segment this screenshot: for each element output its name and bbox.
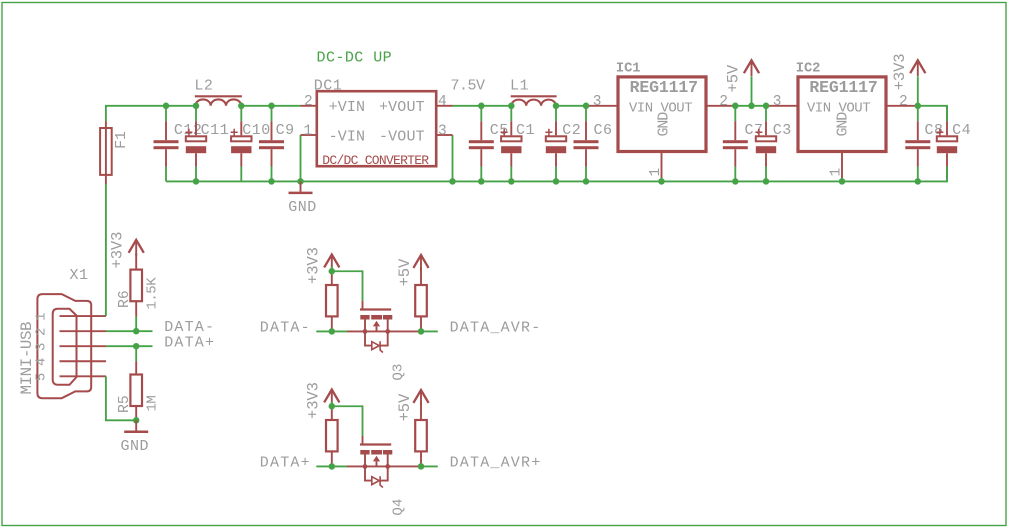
pin 2 stub DC1 <box>301 105 316 107</box>
resistor pull-up 3V3 at Q4 <box>326 420 338 451</box>
svg-text:REG1117: REG1117 <box>809 78 877 97</box>
pin 2 stub IC1 <box>708 105 733 107</box>
resistor pull-up 5V pins at Q4 <box>420 403 422 467</box>
junction bottom rail at C1 <box>508 178 515 185</box>
svg-text:DATA-: DATA- <box>260 320 311 337</box>
junction bottom rail at C2 <box>553 178 560 185</box>
resistor pull-up 5V at Q3 <box>415 285 427 316</box>
junction +3V3 at Q3 <box>329 268 336 275</box>
svg-text:1: 1 <box>828 168 844 177</box>
svg-text:C4: C4 <box>952 122 971 139</box>
svg-text:X1: X1 <box>70 267 89 284</box>
resistor pull-up 5V at Q4 <box>415 420 427 451</box>
junction top rail at C6 <box>583 103 590 110</box>
svg-text:1M: 1M <box>145 396 161 412</box>
junction top rail at C12 <box>163 103 170 110</box>
svg-text:DATA_AVR-: DATA_AVR- <box>450 320 542 337</box>
svg-text:L2: L2 <box>194 78 213 95</box>
junction top rail at L2/C11 <box>193 103 200 110</box>
capacitor C2 (polarized) <box>545 106 566 182</box>
wire DATA+ from X1 pin 3 <box>106 345 153 347</box>
wire ground rail <box>166 167 947 182</box>
capacitor C1 (polarized) <box>501 106 522 182</box>
capacitor C7 <box>723 106 748 182</box>
wire F1 to X1 pin 1 <box>105 184 107 316</box>
resistor R5 pins <box>135 346 137 420</box>
wire L1 to IC1 VIN <box>556 105 588 107</box>
wire +5V supply stub <box>751 76 753 106</box>
svg-text:+5V: +5V <box>725 64 743 92</box>
junction bottom rail at IC1-1 <box>658 178 665 185</box>
junction top rail at C10 <box>238 103 245 110</box>
junction DATA- at R6 <box>133 328 140 335</box>
svg-text:GND: GND <box>655 112 672 137</box>
pin 1 X1 <box>60 315 107 317</box>
svg-text:+5V: +5V <box>396 393 414 421</box>
svg-text:+3V3: +3V3 <box>305 382 323 419</box>
svg-text:GND: GND <box>835 112 852 137</box>
svg-text:C2: C2 <box>562 122 581 139</box>
resistor R5 <box>130 375 142 407</box>
svg-text:R5: R5 <box>117 395 133 413</box>
svg-text:DATA_AVR+: DATA_AVR+ <box>450 455 542 472</box>
svg-text:R6: R6 <box>117 290 133 308</box>
resistor pull-up 3V3 at Q3 <box>326 285 338 316</box>
wire L2 to DC1 +VIN <box>241 105 300 107</box>
svg-text:+3V3: +3V3 <box>305 247 323 284</box>
junction top rail at +5V <box>748 103 755 110</box>
wire DATA- into Q3 <box>316 330 347 332</box>
capacitor C11 (polarized) <box>185 106 206 182</box>
junction bottom rail at C11 <box>193 178 200 185</box>
svg-text:+3V3: +3V3 <box>891 53 909 90</box>
svg-text:F1: F1 <box>114 131 130 149</box>
junction bottom rail at C8 <box>915 178 922 185</box>
svg-text:5: 5 <box>34 373 50 381</box>
junction top rail at C2 <box>553 103 560 110</box>
svg-text:3: 3 <box>438 124 447 140</box>
junction DATA+ at R5 <box>133 343 140 350</box>
capacitor C5 <box>469 106 494 182</box>
svg-text:GND: GND <box>288 199 317 216</box>
+5V supply arrow <box>744 60 759 76</box>
capacitor C8 <box>905 106 930 182</box>
junction bottom rail at C9 <box>268 178 275 185</box>
capacitor C12 <box>154 106 179 182</box>
capacitor C6 <box>574 106 599 182</box>
svg-text:C9: C9 <box>276 122 295 139</box>
svg-text:C10: C10 <box>242 122 271 139</box>
svg-text:3: 3 <box>773 94 782 110</box>
svg-text:DC-DC UP: DC-DC UP <box>317 50 393 67</box>
svg-text:GND: GND <box>121 438 150 455</box>
svg-text:C11: C11 <box>201 122 230 139</box>
junction bottom rail at C6 <box>583 178 590 185</box>
pin 4 X1 <box>60 360 107 362</box>
wire +3V3 to Q3 gate <box>332 267 363 302</box>
resistor pull-up 3V3 pins at Q4 <box>331 406 333 466</box>
junction top rail at 7.5V/C5 <box>478 103 485 110</box>
svg-text:4: 4 <box>438 94 447 110</box>
svg-text:3: 3 <box>34 343 50 351</box>
capacitor C4 (polarized) <box>936 106 957 182</box>
ground symbol under R5 <box>124 420 148 432</box>
junction bottom rail at C3 <box>763 178 770 185</box>
junction top rail at +3V3/C8 <box>915 103 922 110</box>
+3V3 supply arrow at Q4 <box>324 390 339 406</box>
wire +3V3 supply stub <box>917 76 919 106</box>
svg-text:7.5V: 7.5V <box>451 78 486 95</box>
junction top rail at C7 <box>732 103 739 110</box>
svg-text:-VOUT: -VOUT <box>379 128 425 145</box>
pin 5 X1 <box>60 375 107 377</box>
wire IC2 VOUT to C4 (+3V3) <box>916 106 947 122</box>
svg-text:2: 2 <box>304 94 313 110</box>
pin 3 X1 <box>60 345 107 347</box>
svg-text:+3V3: +3V3 <box>109 232 127 269</box>
+5V supply arrow at Q4 <box>413 390 428 406</box>
svg-text:Q4: Q4 <box>391 499 407 516</box>
resistor pull-up 5V pins at Q3 <box>420 268 422 332</box>
resistor R6 pins <box>135 253 137 331</box>
dc-dc converter DC1 box <box>317 91 436 166</box>
transistor Q3 <box>347 301 421 353</box>
connector X1 MINI-USB body <box>37 294 91 398</box>
pin 3 stub DC1 <box>438 134 453 136</box>
svg-text:+VOUT: +VOUT <box>379 99 425 116</box>
junction bottom rail at C7 <box>732 178 739 185</box>
wire IC1 VOUT to IC2 VIN (+5V) <box>733 105 769 107</box>
junction +3V3 at Q4 <box>329 403 336 410</box>
svg-text:REG1117: REG1117 <box>630 78 698 97</box>
pin 1 stub IC1 <box>661 152 663 182</box>
ground symbol under DC1 <box>289 181 313 193</box>
svg-text:4: 4 <box>34 358 50 366</box>
resistor R6 <box>130 270 142 302</box>
junction R5/X1 pin5 to GND <box>133 417 140 424</box>
svg-text:L1: L1 <box>510 78 529 95</box>
svg-text:2: 2 <box>899 94 908 110</box>
capacitor C10 (polarized) <box>231 106 252 182</box>
svg-text:DC/DC CONVERTER: DC/DC CONVERTER <box>322 153 429 168</box>
svg-text:C6: C6 <box>594 122 613 139</box>
wire DC1 -VOUT to ground rail <box>452 135 454 181</box>
pin 1 stub DC1 <box>301 134 316 136</box>
svg-text:1: 1 <box>648 168 664 177</box>
junction DATA_AVR- at pull-up <box>418 328 425 335</box>
inductor L2 <box>195 96 242 106</box>
junction DATA+ at pull-up <box>329 463 336 470</box>
junction DATA- at pull-up <box>329 328 336 335</box>
wire DATA+ into Q4 <box>316 465 347 467</box>
pin 2 stub IC2 <box>888 105 916 107</box>
wire VBUS from F1 to L2 <box>106 106 195 122</box>
svg-text:C1: C1 <box>516 122 535 139</box>
pin 3 stub IC2 <box>769 105 797 107</box>
junction bottom rail at IC2-1 <box>839 178 846 185</box>
svg-text:1.5K: 1.5K <box>145 277 161 310</box>
svg-text:2: 2 <box>719 94 728 110</box>
svg-text:1: 1 <box>304 124 313 140</box>
pin 3 stub IC1 <box>588 105 617 107</box>
wire DC1 -VIN to ground rail <box>300 135 302 181</box>
wire DATA_AVR- from Q3 <box>421 330 438 332</box>
junction bottom rail at C5 <box>478 178 485 185</box>
+3V3 supply arrow at IC2 <box>910 60 925 76</box>
regulator IC1 box <box>618 77 706 152</box>
svg-text:Q3: Q3 <box>391 364 407 381</box>
capacitor C9 <box>259 106 284 182</box>
pin 1 stub IC2 <box>841 152 843 182</box>
transistor Q4 <box>347 436 421 488</box>
+3V3 supply arrow at Q3 <box>324 255 339 271</box>
regulator IC2 box <box>798 77 886 152</box>
resistor pull-up 3V3 pins at Q3 <box>331 271 333 331</box>
fuse F1 <box>100 121 112 184</box>
svg-text:DATA+: DATA+ <box>164 334 215 351</box>
svg-text:+5V: +5V <box>396 258 414 286</box>
svg-text:IC1: IC1 <box>616 61 641 76</box>
svg-text:C3: C3 <box>773 122 792 139</box>
junction bottom rail at DC1-3 <box>449 178 456 185</box>
junction top rail at L1/C1 <box>508 103 515 110</box>
wire DATA- from X1 pin 2 <box>106 330 153 332</box>
capacitor C3 (polarized) <box>755 106 776 182</box>
wire X1 pin 5 to GND <box>106 376 136 420</box>
svg-text:-VIN: -VIN <box>329 128 366 145</box>
+3V3 supply arrow at R6 <box>129 240 144 256</box>
junction top rail at C3 <box>763 103 770 110</box>
svg-text:+VIN: +VIN <box>329 99 366 116</box>
inductor L1 <box>511 96 557 106</box>
svg-text:1: 1 <box>34 312 50 320</box>
junction top rail at C9 <box>268 103 275 110</box>
junction bottom rail at GND/DC1-1 <box>297 178 304 185</box>
wire DC1 +VOUT to L1 (7.5V) <box>453 105 512 107</box>
wire +3V3 to Q4 gate <box>332 402 363 437</box>
svg-text:2: 2 <box>34 328 50 336</box>
pin 4 stub DC1 <box>438 105 453 107</box>
svg-text:DATA+: DATA+ <box>260 455 311 472</box>
svg-text:3: 3 <box>593 94 602 110</box>
svg-text:IC2: IC2 <box>796 61 821 76</box>
+5V supply arrow at Q3 <box>413 255 428 271</box>
junction DATA_AVR+ at pull-up <box>418 463 425 470</box>
pin 2 X1 <box>60 330 107 332</box>
svg-text:DC1: DC1 <box>314 77 343 94</box>
wire DATA_AVR+ from Q4 <box>421 465 438 467</box>
